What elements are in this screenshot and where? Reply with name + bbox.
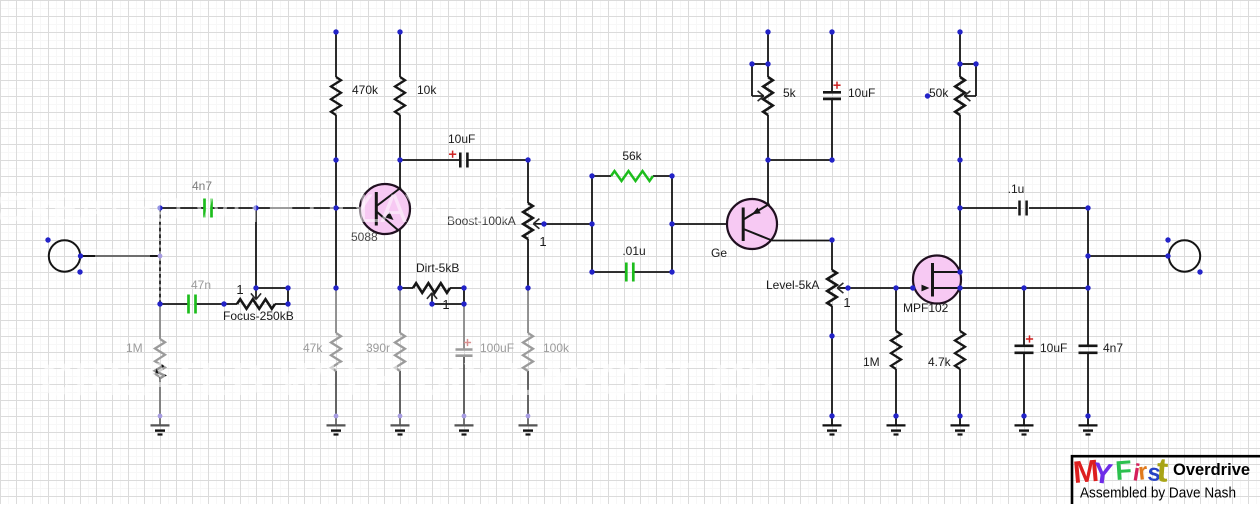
label + 100uF faded xyxy=(464,342,471,344)
node dot (256,208) xyxy=(253,205,258,210)
node dot input jack ring xyxy=(77,269,82,274)
svg-text:Level-5kA: Level-5kA xyxy=(766,278,819,292)
node dot output jack ring xyxy=(1197,269,1202,274)
node dot (832,336) xyxy=(829,333,834,338)
node dot (592,224) xyxy=(589,221,594,226)
node dot (400,288) xyxy=(397,285,402,290)
resistor 390r (faded) xyxy=(395,288,405,416)
label + C3 xyxy=(449,153,456,155)
node dot (528,288) xyxy=(525,285,530,290)
svg-text:1: 1 xyxy=(236,282,243,297)
node dot (768,160) xyxy=(765,157,770,162)
svg-text:56k: 56k xyxy=(622,149,642,163)
wire node (768,160) to C4 bottom xyxy=(768,159,832,161)
node dot (288,288) xyxy=(285,285,290,290)
node dot (256,288) xyxy=(253,285,258,290)
node dot (1088,256) xyxy=(1085,253,1090,258)
svg-text:Assembled by Dave Nash: Assembled by Dave Nash xyxy=(1080,485,1236,502)
node dot (832,160) xyxy=(829,157,834,162)
node dot (288,304) xyxy=(285,301,290,306)
node dot (960,208) xyxy=(957,205,962,210)
node dot (912.8,288) xyxy=(910,285,915,290)
node dot (160,208) xyxy=(157,205,162,210)
node dot (768,64) xyxy=(765,61,770,66)
wire Dirt wiper horizontal xyxy=(432,303,464,305)
node dot (464,304) xyxy=(461,301,466,306)
node dot (432,304) xyxy=(429,301,434,306)
capacitor C4 10uF xyxy=(823,32,841,160)
wire Focus wiper loop horizontal xyxy=(256,287,288,289)
capacitor .01u xyxy=(592,263,672,282)
resistor 56k xyxy=(592,171,672,181)
node dot ground x=464 xyxy=(462,414,467,419)
node dot (960,160) xyxy=(957,157,962,162)
transistor Q1 5088 xyxy=(360,184,410,234)
node dot (960,272) xyxy=(957,269,962,274)
svg-text:1: 1 xyxy=(539,234,546,249)
ground (faded) x=160 xyxy=(151,416,170,435)
watermark patch over input wire xyxy=(95,249,150,262)
potentiometer Boost-100kA xyxy=(523,160,544,288)
node dot (848,288) xyxy=(845,285,850,290)
capacitor C8 4n7 xyxy=(1079,288,1098,416)
wire node A vertical (dashed ghost) x=160 xyxy=(159,208,161,304)
ground x=1088 xyxy=(1079,416,1098,435)
label + C4 xyxy=(833,84,840,86)
svg-text:5k: 5k xyxy=(783,86,797,100)
node dot (592,176) xyxy=(589,173,594,178)
node dot (976,64) xyxy=(973,61,978,66)
1M dark chevron artifact xyxy=(155,366,165,379)
node dot ground x=160 xyxy=(158,414,163,419)
node dot ground x=960 xyxy=(957,413,962,418)
capacitor 100uF (faded) xyxy=(456,304,473,416)
node dot (832,240) xyxy=(829,237,834,242)
wire parallel network right vertical xyxy=(671,176,673,272)
wire network to Q2 base xyxy=(672,223,743,225)
logo box frame xyxy=(1072,456,1260,509)
node dot (336,160) xyxy=(333,157,338,162)
wire vertical x=960 from 50k bottom to R10 xyxy=(959,160,961,288)
svg-text:4n7: 4n7 xyxy=(1103,341,1123,355)
ground x=1024 xyxy=(1015,416,1034,435)
svg-text:LAYOUT: LAYOUT xyxy=(358,187,515,231)
node dot (400,160) xyxy=(397,157,402,162)
node dot output jack sleeve xyxy=(1165,237,1170,242)
capacitor C7 10uF xyxy=(1015,288,1034,416)
node dot (752,64) xyxy=(749,61,754,66)
wire base row from C1 to node B xyxy=(256,207,336,209)
wire source row to C7 and C8 xyxy=(960,287,1088,289)
node dot (1088,288) xyxy=(1085,285,1090,290)
wire R9 top to Q3 gate xyxy=(896,287,932,289)
svg-text:Focus-250kB: Focus-250kB xyxy=(223,309,294,323)
ground (faded) x=400 xyxy=(391,416,410,435)
wire Focus wiper loop vertical xyxy=(287,288,289,304)
svg-text:4.7k: 4.7k xyxy=(928,355,952,369)
ground (faded) x=336 xyxy=(327,416,346,435)
capacitor 4n7 input xyxy=(160,199,256,218)
wire C6 right to node (1088,208) xyxy=(1029,207,1088,209)
ground (faded) x=464 xyxy=(455,416,474,435)
svg-text:1M: 1M xyxy=(863,355,880,369)
ground (faded) x=528 xyxy=(519,416,538,435)
potentiometer Dirt-5kB xyxy=(400,283,464,304)
potentiometer 5k xyxy=(752,32,773,160)
potentiometer Level-5kA xyxy=(827,270,848,306)
node dot (592,272) xyxy=(589,269,594,274)
svg-text:CREATED WITH DIY LAYOUT CR: CREATED WITH DIY LAYOUT CR xyxy=(40,353,781,405)
node dot (528,160) xyxy=(525,157,530,162)
svg-text:Dirt-5kB: Dirt-5kB xyxy=(416,261,459,275)
node dot (672,272) xyxy=(669,269,674,274)
node dot (464,288) xyxy=(461,285,466,290)
node dot (224,304) xyxy=(221,301,226,306)
svg-text:1: 1 xyxy=(442,297,449,312)
capacitor C6 .1u xyxy=(1020,201,1027,216)
node dot input jack sleeve xyxy=(45,237,50,242)
node dot ground x=336 xyxy=(334,414,339,419)
node dot (336,208) xyxy=(333,205,338,210)
input jack J1 xyxy=(49,240,80,271)
svg-text:470k: 470k xyxy=(352,83,379,97)
svg-text:.1u: .1u xyxy=(1008,182,1025,196)
potentiometer 50k xyxy=(955,32,976,160)
node dot ground x=528 xyxy=(526,414,531,419)
wire Q1 collector to node (400,160) xyxy=(399,160,401,188)
capacitor C3 10uF coupling xyxy=(400,153,528,168)
node dot ground x=400 xyxy=(398,414,403,419)
node dot (1024,288) xyxy=(1021,285,1026,290)
svg-text:Overdrive: Overdrive xyxy=(1173,461,1250,479)
wire output node to output jack xyxy=(1088,255,1168,257)
wire node (832,240) down to Level pot xyxy=(831,240,833,270)
wire input jack to node A xyxy=(80,255,160,257)
node dot input jack tip xyxy=(78,253,83,258)
node dot output jack tip xyxy=(1165,253,1170,258)
svg-text:50k: 50k xyxy=(929,86,949,100)
node dot (400,32) xyxy=(397,29,402,34)
node dot ground x=896 xyxy=(893,413,898,418)
output jack J2 xyxy=(1169,240,1200,271)
svg-text:47n: 47n xyxy=(191,278,211,292)
svg-text:CREATED WITH DIY: CREATED WITH DIY xyxy=(0,187,373,231)
wire Boost wiper to parallel network xyxy=(544,223,592,225)
node dot (160,304) xyxy=(157,301,162,306)
transistor Q2 Ge xyxy=(727,199,777,249)
wire vertical x=336 from R1 bottom through base row to R7 top xyxy=(335,160,337,288)
node dot (672,176) xyxy=(669,173,674,178)
ground x=960 xyxy=(951,416,970,435)
svg-text:F: F xyxy=(1114,455,1133,486)
node dot lavender (160,256) xyxy=(158,254,163,259)
potentiometer Focus-250kB xyxy=(224,288,288,309)
node dot (336,32) xyxy=(333,29,338,34)
node dot (832,32) xyxy=(829,29,834,34)
capacitor 47n xyxy=(160,295,224,314)
node dot (544,224) xyxy=(541,221,546,226)
ground x=832 xyxy=(823,416,842,435)
node dot (960,32) xyxy=(957,29,962,34)
svg-text:10uF: 10uF xyxy=(448,132,475,146)
wire Q1 emitter down to Dirt pot left xyxy=(399,229,401,288)
transistor Q3 MPF102 xyxy=(913,256,961,304)
wire Level pot bottom to ground xyxy=(831,306,833,416)
node dot (960,288) xyxy=(957,285,962,290)
wire vertical x=1088 down to C8 xyxy=(1087,208,1089,288)
wire node (960,208) to C6 left xyxy=(960,207,1017,209)
svg-text:10k: 10k xyxy=(417,83,437,97)
node dot (1088,208) xyxy=(1085,205,1090,210)
svg-text:.01u: .01u xyxy=(622,244,645,258)
node dot ground x=832 xyxy=(829,413,834,418)
svg-text:10uF: 10uF xyxy=(848,86,875,100)
wire node B to Q1 base xyxy=(336,207,376,209)
wire Q2 emitter up to node (768,160) xyxy=(767,160,769,204)
wire Q2 collector to node (832,240) xyxy=(772,240,832,242)
svg-text:5088: 5088 xyxy=(351,230,378,244)
resistor 1M (input, faded) xyxy=(155,304,165,416)
node dot ground x=1024 xyxy=(1021,413,1026,418)
node dot (768,32) xyxy=(765,29,770,34)
wire Dirt right terminal down to junction xyxy=(463,288,465,304)
resistor R9 1M xyxy=(891,288,901,416)
node dot (960,64) xyxy=(957,61,962,66)
svg-text:10uF: 10uF xyxy=(1040,341,1067,355)
stray node dot near 50k label xyxy=(925,93,930,98)
node dot (336,288) xyxy=(333,285,338,290)
node dot (672,224) xyxy=(669,221,674,226)
resistor 47k (faded) xyxy=(331,288,341,416)
node dot ground x=1088 xyxy=(1085,413,1090,418)
resistor 100k (faded) xyxy=(523,288,533,416)
wire node 4n7-out down to Focus wiper xyxy=(255,208,257,288)
ground x=896 xyxy=(887,416,906,435)
wire parallel network left vertical xyxy=(591,176,593,272)
resistor 470k xyxy=(331,32,341,160)
svg-text:MPF102: MPF102 xyxy=(903,301,949,315)
svg-text:1: 1 xyxy=(843,295,850,310)
label + C7 xyxy=(1026,338,1033,340)
node dot (896,288) xyxy=(893,285,898,290)
svg-text:Ge: Ge xyxy=(711,246,727,260)
resistor R10 4.7k xyxy=(955,288,965,416)
resistor 10k xyxy=(395,32,405,160)
wire Level wiper to R9 top xyxy=(840,287,896,289)
